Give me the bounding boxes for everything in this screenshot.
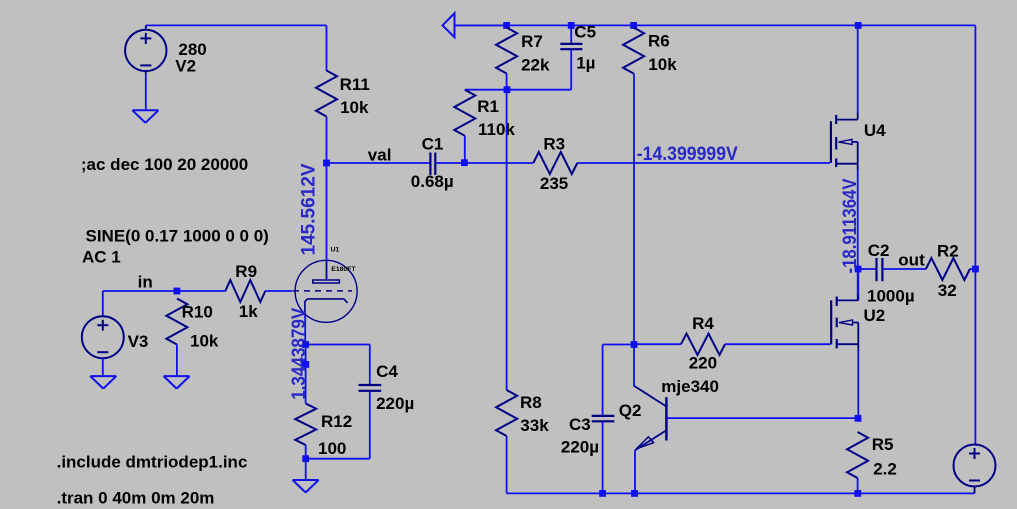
label R9 value 1k — [239, 302, 258, 321]
label C5 name — [574, 23, 596, 42]
voltage text 145.5612V — [298, 163, 319, 255]
wire C5 bottom to node — [507, 89, 572, 91]
label R3 value 235 — [540, 174, 568, 193]
wire C1 to node — [435, 162, 464, 164]
directive AC 1 — [82, 248, 121, 267]
transistor Q2 collector lead — [634, 386, 666, 407]
capacitor C3 — [592, 416, 615, 421]
wire Q2 base to R5 node — [667, 417, 858, 419]
ground under V2 — [132, 110, 158, 123]
wire Q2 emitter down — [634, 450, 636, 493]
resistor R1 — [454, 90, 475, 136]
svg-text:R2: R2 — [937, 241, 959, 260]
wire R1 bottom to node — [464, 136, 466, 163]
wire R8 bottom to rail — [506, 436, 508, 493]
svg-text:C5: C5 — [574, 23, 596, 42]
label R11 value 10k — [340, 98, 369, 117]
triode U1 anode lead — [326, 163, 328, 280]
node in junction at R10 — [174, 288, 181, 295]
resistor R11 — [316, 71, 337, 117]
svg-text:R3: R3 — [543, 134, 565, 153]
transistor Q2 emitter lead — [635, 430, 666, 450]
wire R2 right — [970, 268, 976, 270]
voltage text -18.911364V — [840, 178, 861, 273]
svg-text:-18.911364V: -18.911364V — [840, 178, 861, 273]
label R4 name — [692, 314, 714, 333]
svg-text:E180FT: E180FT — [331, 266, 356, 273]
capacitor C1 — [430, 153, 435, 175]
label R1 name — [477, 97, 499, 116]
triode U1 envelope — [295, 260, 357, 322]
wire R12 bottom to C4 bottom — [306, 391, 370, 458]
svg-text:mje340: mje340 — [661, 377, 719, 396]
arrow flag top left — [443, 13, 508, 37]
wire R6 bottom down to R4 node — [633, 74, 635, 345]
wire bottom rail — [507, 492, 975, 494]
transistor Q2 base bar — [665, 397, 668, 440]
svg-text:220: 220 — [689, 353, 717, 372]
label U1 type E180FT — [331, 266, 356, 273]
voltage source V2 — [125, 25, 166, 110]
svg-text:1k: 1k — [239, 302, 258, 321]
capacitor C2 — [877, 258, 883, 281]
label R6 name — [648, 32, 670, 51]
wire R11 bottom to node val — [326, 117, 328, 164]
wire C3 bottom — [602, 422, 604, 493]
net label val — [368, 146, 392, 165]
resistor R3 — [533, 152, 577, 174]
svg-text:SINE(0 0.17 1000 0 0 0): SINE(0 0.17 1000 0 0 0) — [86, 227, 269, 246]
wire C3 top to R4 node — [603, 344, 634, 346]
svg-text:1.3443879V: 1.3443879V — [289, 308, 310, 400]
svg-text:U4: U4 — [864, 121, 886, 140]
label R2 name — [937, 241, 959, 260]
label C5 value 1u — [576, 53, 595, 72]
triode U1 grid dashed — [293, 290, 352, 292]
ground under R12 — [293, 480, 319, 493]
wire V2 top to R11 top (280V rail) — [146, 25, 327, 71]
node cathode junction — [302, 341, 309, 348]
svg-text:10k: 10k — [190, 331, 219, 350]
wire Q2 collector — [633, 345, 635, 387]
triode U1 anode plate — [313, 280, 340, 283]
wire cathode down to R12 — [305, 345, 307, 404]
label V3 name — [128, 332, 149, 351]
svg-text:220µ: 220µ — [561, 437, 599, 456]
wire right edge rail — [974, 25, 976, 443]
svg-text:C4: C4 — [376, 362, 398, 381]
svg-text:10k: 10k — [340, 98, 369, 117]
label R8 name — [520, 393, 542, 412]
wire R7 bottom to node — [506, 74, 508, 90]
wire U2 drain up — [857, 269, 859, 295]
label R12 name — [321, 412, 352, 431]
svg-text:33k: 33k — [520, 416, 549, 435]
node R7-C5-R1 junction — [504, 86, 511, 93]
svg-text:in: in — [138, 273, 153, 292]
wire R10 bottom to ground — [176, 345, 178, 377]
node U2 source R5 junction — [855, 415, 862, 422]
resistor R4 — [681, 334, 725, 355]
svg-text:R1: R1 — [477, 97, 499, 116]
wire U2 source down — [857, 349, 859, 418]
wire C2 to R2 — [882, 268, 926, 270]
svg-text:1000µ: 1000µ — [867, 286, 915, 305]
directive SINE — [86, 227, 269, 246]
resistor R6 — [623, 28, 644, 74]
node top rail U4 drain — [855, 22, 862, 29]
capacitor C4 — [359, 385, 382, 391]
label R12 value 100 — [318, 439, 346, 458]
label U2 name — [864, 306, 886, 325]
wire R12 bottom — [305, 445, 307, 459]
wire in net V3 to R10 to R9 — [103, 290, 226, 292]
svg-text:;ac dec 100 20 20000: ;ac dec 100 20 20000 — [81, 155, 248, 174]
node val junction — [323, 160, 330, 167]
label C1 name — [422, 135, 444, 154]
wire C3 top — [602, 345, 604, 416]
svg-text:R9: R9 — [235, 262, 257, 281]
svg-text:10k: 10k — [648, 55, 677, 74]
svg-text:-14.399999V: -14.399999V — [637, 144, 738, 165]
voltage source V1 — [954, 444, 996, 494]
label U4 name — [864, 121, 886, 140]
svg-text:R10: R10 — [182, 303, 213, 322]
wire R1 top — [465, 89, 508, 91]
svg-text:100: 100 — [318, 439, 346, 458]
label V2 value 280 — [178, 40, 206, 59]
node R5 bottom rail junction — [854, 490, 861, 497]
svg-text:2.2: 2.2 — [873, 459, 897, 478]
label R1 value 110k — [478, 120, 515, 139]
wire U4 source down — [857, 169, 859, 300]
resistor R8 — [496, 390, 517, 436]
node C3 bottom junction — [599, 490, 606, 497]
wire cathode to C4 top — [306, 345, 370, 385]
node top rail C5 — [568, 22, 575, 29]
wire C2 left — [858, 268, 876, 270]
label R3 name — [543, 134, 565, 153]
svg-text:val: val — [368, 146, 392, 165]
ground under R10 — [164, 376, 190, 389]
directive .tran 0 40m 0m 20m — [57, 489, 215, 508]
svg-text:145.5612V: 145.5612V — [298, 163, 319, 255]
svg-text:110k: 110k — [478, 120, 515, 139]
label R10 name — [182, 303, 213, 322]
svg-text:U1: U1 — [331, 247, 340, 254]
mosfet U4 — [831, 113, 858, 170]
net label out — [898, 251, 925, 270]
label C3 value 220u — [561, 437, 599, 456]
label R7 value 22k — [521, 56, 550, 75]
triode U1 cathode — [305, 299, 348, 317]
svg-text:220µ: 220µ — [376, 394, 414, 413]
node top rail R6 — [630, 22, 637, 29]
label R9 name — [235, 262, 257, 281]
label R10 value 10k — [190, 331, 219, 350]
resistor R7 — [496, 28, 517, 74]
node R6-R4-Q2 junction — [631, 341, 638, 348]
voltage text -14.399999V — [637, 144, 738, 165]
svg-text:32: 32 — [938, 281, 957, 300]
label R5 name — [872, 435, 894, 454]
directive ;ac dec 100 20 20000 — [81, 155, 248, 174]
wire feedback vertical — [506, 90, 508, 390]
label C4 value 220u — [376, 394, 414, 413]
label C1 value 0.68u — [411, 172, 454, 191]
node U4 source C2 junction — [855, 266, 862, 273]
wire U4 drain from rail — [857, 25, 859, 114]
svg-text:.include dmtriodep1.inc: .include dmtriodep1.inc — [57, 453, 248, 472]
voltage text 1.3443879V — [289, 308, 310, 400]
svg-text:R4: R4 — [692, 314, 714, 333]
node top rail R7 — [503, 22, 510, 29]
node R12 bottom junction — [302, 455, 309, 462]
directive .include dmtriodep1.inc — [57, 453, 248, 472]
svg-text:C2: C2 — [868, 241, 890, 260]
svg-text:AC 1: AC 1 — [82, 248, 121, 267]
transistor Q2 emitter arrow — [636, 437, 653, 449]
net label in — [138, 273, 153, 292]
triode U1 cathode lead — [304, 316, 306, 345]
label C4 name — [376, 362, 398, 381]
wire R5 bottom — [857, 478, 859, 493]
node R2 right rail junction — [972, 266, 979, 273]
svg-text:.tran 0 40m 0m 20m: .tran 0 40m 0m 20m — [57, 489, 215, 508]
svg-text:U2: U2 — [864, 306, 886, 325]
svg-text:R7: R7 — [521, 32, 543, 51]
label Q2 name — [619, 401, 642, 420]
label C2 value 1000u — [867, 286, 915, 305]
svg-text:R8: R8 — [520, 393, 542, 412]
wire R4 left — [634, 343, 681, 345]
label R7 name — [521, 32, 543, 51]
svg-text:V3: V3 — [128, 332, 149, 351]
wire R9 to tube grid — [265, 290, 292, 292]
label R2 value 32 — [938, 281, 957, 300]
label R6 value 10k — [648, 55, 677, 74]
wire R3 to U4 gate — [577, 162, 830, 164]
resistor R5 — [847, 432, 868, 478]
resistor R12 — [295, 404, 316, 446]
resistor R9 — [225, 280, 265, 302]
wire node to R3 — [465, 162, 534, 164]
wire top rail — [455, 24, 976, 26]
wire to ground under R12 — [305, 459, 307, 480]
mosfet U2 — [831, 294, 858, 350]
node cathode second junction — [302, 361, 309, 368]
wire R4 right to U2 gate — [725, 343, 830, 345]
node C1-R1 junction — [461, 159, 468, 166]
svg-text:R11: R11 — [340, 75, 370, 94]
ground under V3 — [90, 376, 116, 389]
resistor R10 — [166, 299, 187, 345]
label R5 value 2.2 — [873, 459, 897, 478]
label Q2 type mje340 — [661, 377, 719, 396]
label C2 name — [868, 241, 890, 260]
label U1 name — [331, 247, 340, 254]
svg-text:C1: C1 — [422, 135, 444, 154]
label C3 name — [569, 415, 591, 434]
label R4 value 220 — [689, 353, 717, 372]
svg-text:R5: R5 — [872, 435, 894, 454]
capacitor C5 — [560, 25, 582, 89]
wire val node to C1 — [327, 162, 431, 164]
resistor R2 — [926, 258, 970, 280]
svg-text:out: out — [898, 251, 925, 270]
label R8 value 33k — [520, 416, 549, 435]
svg-text:1µ: 1µ — [576, 53, 595, 72]
svg-text:0.68µ: 0.68µ — [411, 172, 454, 191]
label R11 name — [340, 75, 370, 94]
svg-text:22k: 22k — [521, 56, 550, 75]
svg-text:Q2: Q2 — [619, 401, 642, 420]
svg-text:C3: C3 — [569, 415, 591, 434]
svg-text:235: 235 — [540, 174, 568, 193]
svg-text:R12: R12 — [321, 412, 352, 431]
svg-text:R6: R6 — [648, 32, 670, 51]
node Q2 emitter on rail — [631, 490, 638, 497]
label V2 name — [175, 57, 196, 76]
voltage source V3 — [82, 291, 124, 376]
svg-text:V2: V2 — [175, 57, 196, 76]
